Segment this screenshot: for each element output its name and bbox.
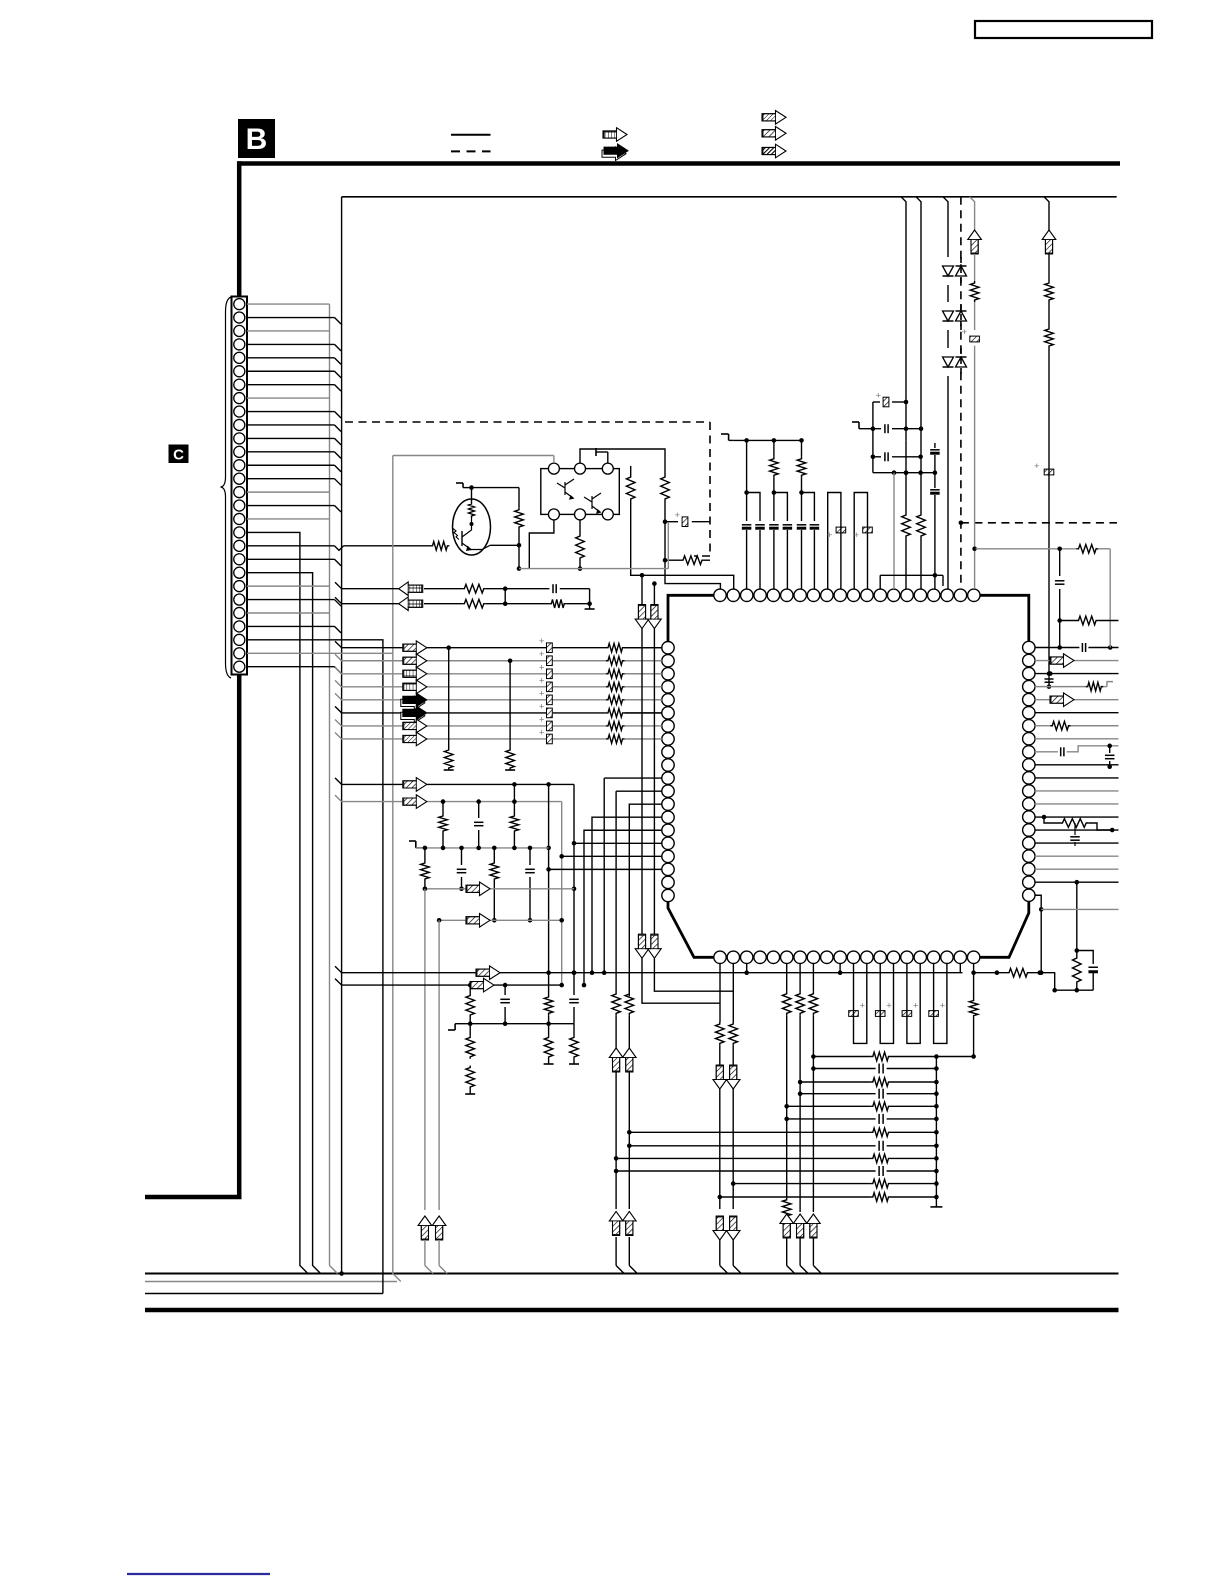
sheet label B (238, 119, 275, 158)
svg-text:+: + (539, 662, 545, 673)
wire net row y888 (425, 888, 574, 890)
wire pin13 riser link (879, 575, 881, 589)
resistor on RX2b (549, 599, 566, 608)
wire bank 6 to pin (625, 712, 663, 714)
wire x1049 seg3 (1048, 302, 1050, 327)
wire x906 to pin15 (905, 440, 907, 513)
wire bank 7 (335, 719, 404, 726)
capacitor IC-R pin9 (1060, 747, 1062, 756)
capacitor cluster low (873, 456, 881, 458)
capacitor C+ bank 1 (547, 643, 553, 653)
svg-text:+: + (675, 510, 681, 521)
resistor ladder 12 (871, 1193, 891, 1202)
ladder rung 4 wire (800, 1093, 876, 1095)
resistor bank 1 (606, 643, 625, 652)
capacitor C+ loop 2 (880, 963, 893, 1043)
wire bank 5 (335, 693, 404, 700)
wire y976 right seg (974, 972, 1007, 974)
wire x974 seg3 (974, 302, 976, 330)
capacitor cluster mid (866, 428, 881, 430)
capacitor C+ cluster top (873, 401, 880, 403)
dashed net line A (345, 421, 710, 423)
wire connector pin 24 (247, 612, 330, 614)
resistor bank 8 (606, 735, 625, 744)
legend arrow grid (603, 128, 627, 142)
capacitor ladder 6 (878, 1114, 880, 1124)
resistor x921 low (917, 513, 926, 538)
resistor on RX1 (462, 584, 486, 593)
wire col rail (470, 1023, 574, 1025)
wire x720 mid (719, 1045, 721, 1066)
wire bottom row 2 (335, 979, 470, 986)
wire IC-B pin1 down (719, 963, 721, 1022)
resistor on RX2 (462, 599, 486, 608)
resistor x616 (612, 992, 621, 1015)
wire y976 right end (1030, 972, 1056, 974)
capacitor C+ bank 5 (547, 695, 553, 705)
wire vert x974 gray (970, 197, 975, 232)
svg-text:C: C (173, 447, 184, 464)
gnd tick transistor top (463, 487, 472, 489)
capacitor col x574 (573, 973, 575, 995)
connector label C (169, 445, 189, 464)
wire gray emitter bus (519, 568, 668, 570)
ladder rung 2 wire (813, 1068, 875, 1070)
svg-text:B: B (246, 123, 268, 156)
wire cap pair 2 (774, 493, 788, 522)
legend dashed line (451, 150, 491, 152)
resistor col below 3 (573, 1024, 575, 1036)
wire x616 mid (615, 1015, 617, 1050)
wire gray net B (335, 795, 404, 802)
wire connector pin 19 (247, 545, 335, 547)
wire x733 low (732, 1089, 734, 1209)
wire IC-R pin15 (1035, 829, 1119, 831)
arrow IC-R pin2 (1050, 654, 1074, 668)
gnd gray rail (416, 847, 425, 849)
resistor IC-R pin7 (1050, 721, 1070, 730)
capacitor C+ bank 4 (547, 682, 553, 692)
svg-text:+: + (539, 649, 545, 660)
resistor below rail x424 (424, 848, 426, 861)
wire cluster left vert (872, 402, 874, 457)
capacitor col x505 (504, 985, 506, 995)
border rect (title block) (975, 21, 1152, 38)
svg-text:+: + (876, 391, 882, 402)
svg-text:+: + (539, 727, 545, 738)
wire col x470 top (469, 985, 471, 993)
resistor ladder 5 (871, 1102, 891, 1111)
capacitor C+ loop 4 (934, 963, 947, 1043)
capacitor C+ bank 7 (547, 721, 553, 731)
wire connector pin 13 (247, 464, 335, 466)
svg-text:+: + (1034, 461, 1040, 472)
resistor y548 (1077, 545, 1099, 554)
wire IC-R pin10 (1035, 764, 1119, 766)
wire x1049 seg2 (1048, 254, 1050, 281)
wire gray rail (416, 847, 549, 849)
resistor col below 2 (548, 1024, 550, 1036)
capacitor below rail x530 (529, 848, 531, 865)
wire cap pair 3 (802, 493, 815, 522)
arrow left 1 (399, 582, 423, 596)
diode pair D1 (943, 266, 954, 276)
wire cluster rail (873, 472, 935, 474)
resistor bank 7 (606, 722, 625, 731)
arrow down x654 a (648, 605, 662, 629)
wire x616 end (615, 1237, 617, 1266)
ladder rung 1 wire (813, 1056, 870, 1058)
svg-text:+: + (854, 530, 860, 541)
wire x813 low (812, 1015, 814, 1068)
resistor x974 (970, 281, 979, 302)
resistor x813 (809, 992, 818, 1016)
wire x642 vertical (641, 575, 643, 604)
wire RX line 1 (335, 582, 399, 589)
arrow left 2 (399, 597, 423, 611)
dashed net line B vertical (960, 197, 962, 586)
arrow down x642 b (635, 934, 649, 958)
capacitor C+ bank 8 (547, 734, 553, 744)
wire bank 7 to pin (625, 725, 663, 727)
resistor x973 (969, 999, 978, 1018)
arrow up x974 (968, 230, 982, 254)
capacitor C+ bank 2 (547, 656, 553, 666)
capacitor Cb1 (755, 524, 765, 526)
resistor x1049 a (1045, 281, 1054, 302)
wire x642 turn (642, 958, 720, 1003)
wire bank 3 to pin (625, 673, 663, 675)
wire connector pin 14 (247, 478, 335, 480)
wire IC-R pin11 (1035, 777, 1119, 779)
arrow up x629 b (623, 1211, 637, 1235)
wire bottom gray bus line (145, 1281, 397, 1283)
svg-text:+: + (886, 1001, 892, 1012)
wire connector pin 2 (247, 317, 335, 319)
IC U1 bottom pins (714, 951, 726, 963)
wire connector pin 16 (247, 505, 335, 507)
legend arrow solid (602, 147, 626, 161)
wire IC-R pin17 (1035, 855, 1119, 857)
capacitor C+ loop top 2 (854, 493, 867, 590)
wire connector pin 12 (247, 451, 335, 453)
wire IC-R pin16 (1035, 842, 1119, 844)
wire connector pin 18 (247, 532, 308, 1273)
wire connector pin 21 (247, 573, 321, 1274)
wire connector pin 10 (247, 424, 335, 426)
gnd tick rail y440 (729, 439, 734, 441)
capacitor C+ loop 3 (907, 963, 920, 1043)
wire thick bottom-left border (145, 1195, 242, 1200)
resistor R mid (515, 508, 524, 529)
wire IC-B pin10 stub (839, 963, 841, 972)
resistor bank 3 (606, 669, 625, 678)
resistor x1049 b (1045, 327, 1054, 348)
arrow down x720 (713, 1065, 727, 1089)
wire x1049 seg4 (1048, 348, 1050, 674)
wire thick top border (237, 161, 1120, 166)
capacitor on RX1 (552, 584, 554, 593)
wire connector pin 22 (247, 585, 330, 587)
wire col x561 (561, 802, 563, 986)
node bank w2 (508, 658, 513, 663)
legend arrow hatch (762, 127, 786, 141)
wire IC-R pin9 (1035, 751, 1058, 753)
wire connector pin 3 (247, 330, 330, 332)
wire IC-B pin20 down (973, 963, 975, 972)
wire IC-R pin19 (1035, 881, 1119, 883)
wire x813 end (812, 1069, 814, 1213)
wire connector pin 9 (247, 411, 335, 413)
footer rule (127, 1573, 270, 1575)
arrow up x813 (807, 1214, 821, 1238)
capacitor ladder 4 (878, 1089, 880, 1099)
capacitor Cb3 (810, 524, 820, 526)
gnd tick above U2 (607, 452, 609, 463)
wire connector pin 25 (247, 625, 335, 627)
arrow up x1049 (1042, 230, 1056, 254)
node link x589 (589, 589, 591, 609)
capacitor ladder 8 (878, 1141, 880, 1151)
ladder rung 6 wire (787, 1118, 876, 1120)
ladder rung 3 wire (800, 1081, 871, 1083)
wire IC-L pin11 stair (604, 777, 662, 779)
arrow down x654 b (648, 934, 662, 958)
resistor ladder 7 (871, 1128, 891, 1137)
wire stair x604 (603, 778, 605, 973)
wire x629 low (628, 1072, 630, 1209)
arrow net row y888 (466, 882, 490, 896)
wire gray drop x424 end (424, 1240, 426, 1266)
wire connector pin 28 (247, 666, 335, 668)
wire connector pin 17 (247, 518, 330, 520)
wire x786 jog (786, 1238, 788, 1266)
resistor R below U2 (579, 520, 581, 534)
wire vert x921 (916, 197, 921, 429)
resistor bank w2 pulldown (506, 748, 515, 770)
capacitor C+ loop top 1 (828, 493, 841, 590)
capacitor R3-R4 (1048, 674, 1050, 687)
wire IC-L pin12 stair (616, 790, 662, 792)
arrow up x629 a (623, 1048, 637, 1072)
wire IC-R pin2 (1035, 660, 1054, 662)
node bank w1 (446, 645, 451, 650)
arrow bottom row 1 (476, 966, 500, 980)
wire x973 to ladder (973, 1018, 975, 1057)
wire col x548 upper (548, 784, 550, 972)
resistor R right1 (626, 475, 635, 501)
arrow down x733 b (726, 1216, 740, 1240)
capacitor below rail x461 (461, 848, 463, 865)
resistor x733 (729, 1022, 738, 1045)
wire bottom row 1 (335, 966, 477, 973)
connector CN1 body (232, 297, 248, 675)
IC U1 left pins (662, 642, 674, 654)
wire vert x906 (901, 197, 906, 441)
resistor x786 (782, 992, 791, 1016)
resistor bank 5 (606, 696, 625, 705)
wire IC-B pin2 down (732, 963, 734, 1022)
wire drop x746 (746, 440, 748, 492)
wire bank 1 to pin (625, 647, 663, 649)
ladder right rail (935, 1057, 937, 1207)
wire connector pin 1 (247, 303, 330, 305)
wire gray from pin27 vert (393, 455, 554, 457)
svg-text:+: + (962, 327, 968, 338)
resistor bank 2 (606, 656, 625, 665)
arrow bank 6 (401, 709, 425, 723)
resistor col x548 (548, 973, 550, 995)
resistor gray col x443 (442, 802, 444, 814)
wire x629 down (628, 973, 630, 992)
wire IC-R pin13 (1035, 803, 1119, 805)
wire x800 low (799, 1015, 801, 1093)
transistor Q1 (digital, oval) (453, 499, 491, 555)
wire IC-L pin15 stair (584, 830, 662, 985)
U2 internal transistors (557, 479, 574, 498)
resistor ladder 1 (871, 1052, 891, 1061)
wire bank 3 (335, 667, 404, 674)
wire gray net A (335, 778, 404, 785)
wire x921 to pin16 (920, 429, 922, 513)
arrow gray net B (403, 795, 427, 809)
wire x973 down (973, 973, 975, 999)
wire rail y440 (734, 439, 802, 441)
resistor col below 1b (466, 1066, 475, 1090)
capacitor C+ bank 3 (547, 669, 553, 679)
wire connector pin 5 (247, 357, 335, 359)
wire IC-B pin7 down (799, 963, 801, 992)
wire connector pin 11 (247, 437, 335, 439)
wire x720 end (719, 1240, 721, 1266)
arrow down x642 a (635, 605, 649, 629)
wire U2 pin1 down (529, 520, 554, 569)
capacitor C+ to dashed (665, 521, 678, 523)
wire IC-R pin7 (1035, 725, 1051, 727)
dashed net line A vertical (709, 422, 711, 556)
svg-text:+: + (827, 530, 833, 541)
wire x813 jog (812, 1238, 814, 1266)
wire connector pin 7 (247, 384, 335, 386)
wire x800 end (799, 1094, 801, 1212)
wire connector pin 6 (247, 370, 335, 372)
resistor R right2 (661, 475, 670, 501)
wire x654 mid (653, 629, 655, 935)
wire x629 end (628, 1237, 630, 1266)
wire connector pin 23 (247, 599, 335, 601)
diode pair D3 (943, 357, 954, 367)
wire IC-L pin13 stair (629, 804, 662, 996)
wire IC-R pin4 (1035, 686, 1086, 688)
wire R right1 to IC (631, 501, 734, 589)
wire bank 2 to pin (625, 660, 663, 662)
arrow down x720 b (713, 1216, 727, 1240)
wire vert x948 diodes (943, 197, 948, 257)
wire x642 mid (641, 629, 643, 935)
wire gray drop x424 (424, 889, 426, 1210)
arrow down x733 (726, 1065, 740, 1089)
ladder rung 11 wire (733, 1183, 871, 1185)
resistor ladder 3 (871, 1078, 891, 1087)
wire bottom bus line (145, 1273, 1119, 1275)
bus gray vertical (329, 304, 331, 1265)
capacitor ladder 10 (878, 1166, 880, 1176)
wire gray drop x439 end (438, 1240, 440, 1266)
wire bank 6 (335, 706, 404, 713)
wire cap pair 1 (747, 493, 760, 522)
capacitor Ca2 (769, 524, 779, 526)
brace for connector group (221, 297, 232, 678)
wire IC-B pin19 stub (959, 963, 961, 972)
capacitor C+ loop 1 (854, 963, 867, 1043)
wire x786 low (786, 1015, 788, 1119)
wire x974 seg4 (974, 346, 976, 589)
resistor col below 1 (469, 1024, 471, 1036)
resistor R to dashed (665, 559, 681, 561)
U2 pads (548, 463, 559, 474)
arrow bank 7 (403, 719, 427, 733)
resistor drop x773 (773, 440, 775, 456)
RC bottom right (1055, 989, 1094, 991)
arrow up x616 b (609, 1211, 623, 1235)
wire x665 to IC pin1 (665, 560, 720, 589)
wire x1054 link (1054, 973, 1056, 991)
wire x1076 down (1076, 882, 1078, 950)
svg-text:+: + (539, 714, 545, 725)
wire L feed pin2 (630, 574, 632, 576)
wire IC-B pin8 down (812, 963, 814, 992)
wire gray x894 (893, 473, 895, 589)
node vertical x519 (518, 488, 520, 508)
wire bank 2 (335, 654, 404, 661)
resistor y976 (1007, 968, 1029, 977)
arrow bottom row 2 (470, 978, 494, 992)
arrow up x800 (793, 1214, 807, 1238)
wire IC-R pin14 (1035, 816, 1119, 818)
wire IC-R pin12 (1035, 790, 1119, 792)
wire x733 end (732, 1240, 734, 1266)
wire IC-L pin18 stair (549, 868, 662, 870)
wire dashed diode stubs (960, 257, 962, 285)
node x665 net (664, 501, 666, 560)
resistor x720 (716, 1022, 725, 1045)
wire gray y548 (976, 548, 1077, 550)
wire x1059 down (1059, 549, 1061, 576)
wire gray x1110 down (1109, 549, 1111, 648)
connector CN1 pins (234, 299, 245, 310)
wire RX line 2 (335, 597, 399, 604)
resistor bank w1 pulldown (444, 748, 453, 770)
wire x616 low (615, 1072, 617, 1209)
ladder rung 7 wire (629, 1131, 871, 1133)
wire IC-L pin14 stair (592, 817, 662, 972)
wire collector to R net (472, 487, 520, 489)
wire thick left border lower (237, 675, 242, 1198)
arrow net row y920 (466, 914, 490, 928)
arrow up x439 (432, 1216, 446, 1240)
wire thick left border upper (237, 161, 242, 296)
svg-text:+: + (913, 1001, 919, 1012)
wire x934 caps (934, 443, 936, 448)
wire x786 end (786, 1119, 788, 1198)
wire bank 4 (335, 680, 404, 687)
wire stair x616 (615, 791, 617, 973)
arrow bank 1 (403, 641, 427, 655)
arrow bank 5 (401, 696, 425, 710)
capacitor gray col x478 (478, 802, 480, 818)
wire bank 8 to pin (625, 738, 663, 740)
wire x800 jog (799, 1238, 801, 1266)
